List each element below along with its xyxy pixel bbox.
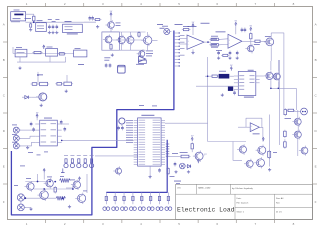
resistor divider R5 R6 (37, 72, 39, 83)
svg-text:E: E (3, 164, 5, 168)
wire (86, 174, 88, 193)
ground (69, 205, 71, 207)
wire (34, 188, 73, 190)
power flag 5V (110, 14, 112, 16)
IC U8 MCU (138, 118, 162, 166)
wire in- (179, 43, 187, 45)
transistor Q2 (105, 36, 112, 43)
wire (297, 138, 299, 147)
svg-text:Electronic Load: Electronic Load (177, 207, 235, 214)
svg-text:F: F (3, 200, 5, 204)
wire sources down (270, 81, 272, 88)
wire (196, 85, 234, 87)
jack J10 (301, 108, 308, 115)
wire (25, 181, 46, 183)
wire (20, 142, 36, 146)
crystal Y1 (119, 118, 125, 124)
wire (152, 39, 158, 41)
power flag 5V (191, 139, 193, 141)
fuse F1 (33, 16, 35, 21)
resistor R4 (59, 53, 64, 55)
capacitor C21 (159, 168, 161, 170)
diode D2 (34, 51, 41, 53)
wire top right (271, 33, 284, 60)
wire (24, 206, 31, 208)
wire (32, 96, 39, 98)
transistor Q21 (27, 183, 34, 190)
capacitor C4 (89, 16, 91, 18)
transistor Q1 (108, 22, 115, 29)
net label (20, 165, 25, 168)
capacitor C19 (118, 126, 120, 128)
svg-text:LTD: LTD (177, 188, 181, 190)
ground (111, 53, 113, 55)
wire drain up (270, 33, 272, 37)
ground (188, 170, 190, 172)
transistor Q17 (258, 146, 266, 154)
wire (284, 139, 286, 140)
transistor Q5 (144, 36, 152, 44)
jack J6 (180, 163, 186, 169)
mosfet Q9 (266, 72, 273, 79)
wire out (204, 41, 211, 43)
op-amp U1A (187, 35, 204, 49)
op-amp U6 (250, 123, 259, 132)
resistor array R17-R21 (65, 159, 67, 163)
long vertical wire (295, 88, 297, 110)
resistor R11 (211, 44, 218, 46)
mosfet Q8 (266, 38, 274, 46)
resistor RN2 (268, 151, 271, 157)
resistor R10 (211, 38, 218, 40)
buzzer BZ1 (139, 56, 146, 62)
wire (20, 201, 22, 204)
capacitor C18 (64, 127, 66, 129)
net labels (28, 151, 33, 154)
ground (175, 170, 177, 172)
resistor R16 (288, 109, 294, 111)
wire out (259, 127, 263, 141)
svg-text:Rev:: Rev: (276, 202, 281, 204)
bias network box (102, 32, 119, 50)
power flag (79, 179, 81, 181)
regulator U3 (63, 24, 83, 32)
wire (169, 156, 179, 158)
wire gates (260, 75, 264, 77)
wire MCU to DAC (165, 122, 208, 124)
wire long vertical (269, 115, 271, 167)
wire bias interconnect (112, 39, 143, 41)
crystal X2 (228, 87, 233, 91)
jack J7 (17, 194, 24, 201)
jack J9 (164, 29, 170, 35)
capacitor C9 (241, 28, 243, 30)
transistor Q16 (246, 160, 253, 167)
wire (218, 44, 228, 46)
ground (52, 31, 54, 33)
svg-text:A: A (3, 22, 5, 26)
wire (297, 147, 299, 156)
mosfet Q14 (294, 131, 301, 138)
diode D3 (25, 96, 29, 99)
ground (40, 104, 42, 106)
transistor Q18 (257, 159, 265, 167)
svg-text:A: A (315, 22, 317, 26)
svg-text:by: Dilshan Jayakody: by: Dilshan Jayakody (232, 188, 254, 190)
resistor R29 zigzag (56, 196, 65, 200)
svg-text:Sheet: 1: Sheet: 1 (237, 211, 245, 214)
LED D11 (159, 192, 161, 204)
transistor Q12 (195, 152, 203, 160)
wire main rail top (26, 21, 97, 23)
ground (149, 175, 151, 177)
capacitor C20 (121, 126, 123, 128)
ground (30, 207, 32, 209)
power flag 5V (235, 24, 237, 26)
wire (283, 60, 285, 110)
LED D12 (167, 192, 169, 204)
IC U4 (40, 120, 58, 146)
net labels (216, 49, 222, 52)
connector J2 (15, 49, 27, 57)
power flag 5V (192, 25, 194, 27)
capacitor C13 (236, 51, 238, 53)
transistor Q22 (40, 191, 49, 200)
crystal X1 (219, 74, 230, 79)
resistor R2 (138, 33, 140, 37)
jack J8 (18, 204, 25, 211)
svg-text:Size: A4: Size: A4 (276, 197, 284, 200)
wire (43, 172, 45, 179)
net label 5V (174, 180, 181, 183)
svg-text:Date:: Date: (237, 197, 242, 200)
wire (218, 38, 228, 41)
net labels MCU left (126, 119, 133, 122)
transistor Q6 (39, 93, 47, 101)
junction (37, 181, 39, 183)
jack J4 (13, 135, 19, 141)
mosfet Q13 (294, 118, 301, 125)
transistor Q24 (78, 194, 86, 202)
diode D1 (30, 22, 32, 24)
connector J1 (14, 9, 20, 12)
capacitor C15 (30, 122, 32, 124)
wire drain top (270, 61, 272, 70)
svg-text:File: load.sch: File: load.sch (237, 202, 249, 204)
transistor Q15 (239, 146, 246, 153)
jack J5 (13, 143, 19, 149)
wire (238, 126, 250, 128)
regulator U2 (36, 23, 47, 32)
wire bias rail bottom (102, 49, 146, 51)
wire (13, 53, 74, 55)
capacitor C6 (105, 63, 107, 65)
wire (205, 75, 212, 77)
LED D9 (141, 192, 143, 204)
svg-text:E: E (315, 164, 317, 168)
LED D8 (132, 192, 134, 204)
resistor R9 (183, 29, 188, 31)
switch box S1 (46, 49, 58, 57)
capacitor C2 (52, 25, 54, 27)
relay box K1 (74, 50, 87, 57)
net label VREF (157, 23, 163, 26)
transistor Q3 (118, 36, 125, 43)
transistor Q23 (73, 181, 80, 188)
wire (260, 40, 266, 42)
ground (56, 31, 58, 33)
power flag 5V (36, 116, 38, 118)
IC U5 DAC (238, 72, 256, 96)
transistor Q7 (248, 45, 254, 51)
diode D4 (187, 165, 190, 168)
op-amp U1B (228, 34, 242, 48)
net label (78, 63, 84, 66)
svg-text:B: B (315, 58, 317, 62)
resistor R14 (223, 54, 228, 56)
wire (25, 197, 56, 199)
wire (95, 155, 138, 157)
ground (221, 93, 223, 95)
resistor R28 (54, 187, 56, 192)
capacitor C7 (109, 63, 111, 65)
wire (20, 136, 36, 138)
power flag (43, 170, 45, 172)
wire Q1 emitter (110, 28, 112, 32)
resistor R25 (284, 131, 287, 136)
resistor R26 (284, 142, 287, 147)
resistor R27 zigzag (60, 179, 71, 183)
wire (279, 60, 281, 145)
wire (20, 129, 36, 131)
transistor Q4 (127, 37, 134, 44)
feedback wire (246, 118, 262, 127)
transistor Q11 (116, 168, 122, 174)
ground (19, 66, 21, 68)
resistor R22 (167, 168, 169, 173)
capacitor C5 (92, 16, 94, 18)
jack J3 (13, 127, 19, 133)
resistor network RN1 (284, 110, 287, 115)
capacitor C3 (56, 25, 58, 27)
capacitor C11 (218, 51, 220, 53)
wire (208, 141, 246, 143)
transistor Q20 (46, 180, 53, 187)
capacitor C14 (234, 90, 236, 92)
resistor R1 (95, 19, 100, 21)
power flag 5V (250, 29, 252, 31)
wire (84, 21, 96, 23)
svg-text:Id: 1/1: Id: 1/1 (276, 212, 282, 214)
LED D7 (123, 192, 125, 204)
svg-text:F: F (315, 200, 317, 204)
LED D5 (105, 192, 107, 204)
resistor R15 (212, 75, 217, 77)
wire out to gate (242, 40, 255, 42)
capacitor C1 (48, 25, 50, 27)
wire (297, 115, 299, 119)
resistor R23 (191, 144, 193, 149)
bus entry pins (175, 32, 179, 34)
wire J1 to fuse (26, 14, 34, 16)
bottom parts row (174, 162, 176, 164)
ground (269, 168, 271, 170)
LED D10 (150, 192, 152, 204)
resistor R12 (255, 40, 260, 42)
wire (62, 123, 69, 125)
power flag (197, 161, 199, 163)
capacitor C12 (229, 51, 231, 53)
electrolytic capacitor C8 (118, 65, 126, 73)
ground (192, 51, 194, 53)
wire bias rail top (102, 31, 146, 33)
wire stub (12, 47, 14, 54)
wire (191, 149, 193, 152)
svg-text:BAND_LOAD: BAND_LOAD (198, 187, 211, 190)
wire (72, 185, 74, 189)
long vertical wire (207, 57, 209, 142)
junction (43, 188, 45, 190)
bus branch to LED rail (106, 140, 167, 193)
power flag 5V (230, 68, 232, 70)
power flag (262, 139, 264, 141)
power flag (43, 47, 45, 49)
capacitor C17 (60, 120, 62, 122)
ground (97, 25, 99, 27)
ground flag (62, 168, 64, 172)
ground (65, 90, 67, 92)
svg-text:B: B (3, 58, 5, 62)
net labels MCU right (166, 143, 170, 146)
resistor R24 (181, 155, 189, 158)
ground (30, 28, 32, 30)
bus main loop (11, 31, 174, 215)
title block (176, 184, 313, 219)
resistor divider R7 R8 (66, 75, 68, 83)
wire (37, 174, 39, 182)
capacitor C10 (244, 28, 246, 30)
transistor Q19 (301, 147, 308, 154)
ground (27, 146, 29, 148)
wire U4 to MCU (62, 139, 134, 141)
net labels on bus (139, 104, 144, 107)
wire source down (270, 47, 272, 61)
resistor R13 (250, 34, 252, 39)
voltage reference U7 (139, 51, 145, 57)
wire (271, 87, 296, 89)
wire ground rail (17, 61, 66, 63)
wire (66, 187, 73, 189)
net label REF_1V1 (201, 22, 210, 25)
net labels at bus (175, 23, 183, 26)
junction (54, 181, 56, 183)
wire (233, 142, 242, 161)
wire in+ (179, 37, 187, 39)
mosfet Q10 (274, 73, 281, 80)
resistor R3 (110, 45, 112, 49)
wire (297, 125, 299, 131)
LED D6 (114, 192, 116, 204)
ground (48, 31, 50, 33)
capacitor C16 (33, 127, 35, 129)
